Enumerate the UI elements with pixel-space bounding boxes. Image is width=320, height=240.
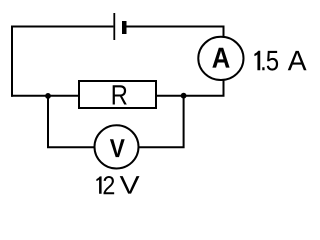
wire middle-left segment [11,95,79,97]
current value digits .5 [262,51,278,71]
ammeter U1 circle [198,37,243,80]
wire top-left loop segment [12,27,113,97]
wire right branch down to voltmeter [140,96,184,148]
wire ammeter bottom to middle rail [156,80,224,96]
voltage value label V unit [120,176,140,193]
wire battery to ammeter [127,27,224,37]
ammeter label A [212,48,229,68]
wire left branch down to voltmeter [48,96,94,147]
battery B1 short thick plate [122,21,127,34]
voltage value digit 1 [96,176,101,193]
resistor R box [79,81,156,108]
battery B1 long plate [113,13,115,40]
current value label A unit [288,51,307,70]
resistor label R [113,85,127,104]
junction dot left node [45,93,51,99]
voltmeter U2 circle [95,125,139,168]
voltmeter label V [110,139,125,157]
voltage value digit 2 [104,176,115,194]
current value digit 1 [254,51,260,71]
junction dot right node [181,93,187,99]
